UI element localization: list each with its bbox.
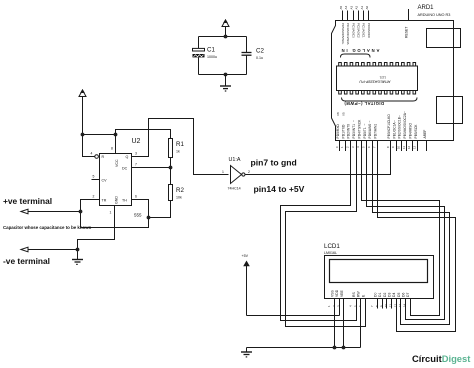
op-amp U2 555 timer body: [91, 138, 143, 218]
node +ve terminal junction: [79, 210, 83, 214]
svg-text:PC2/ADC2: PC2/ADC2: [357, 23, 361, 38]
pin RESET stub: [404, 9, 408, 38]
wire DC pin 7 to R1/R2 junction: [132, 167, 171, 169]
svg-text:AREF: AREF: [423, 130, 427, 139]
wire -ve terminal arrow: [21, 247, 78, 252]
svg-text:D3: D3: [388, 293, 392, 297]
LCD1 LM016L display: [324, 243, 434, 299]
svg-text:8: 8: [386, 146, 390, 148]
wire GND pin 1 to ground: [78, 206, 115, 260]
svg-text:7: 7: [135, 163, 137, 167]
svg-text:D2: D2: [383, 293, 387, 297]
svg-text:4: 4: [349, 305, 353, 307]
wire VCC pin up and over to R1: [116, 130, 171, 154]
wire TR pin 2: [81, 200, 100, 228]
svg-text:PB4/MISO: PB4/MISO: [408, 122, 412, 138]
svg-text:VSS: VSS: [331, 289, 335, 297]
svg-text:74HC14: 74HC14: [228, 187, 241, 191]
wire arduino pin3 to LCD E: [286, 141, 366, 327]
svg-text:PC4/ADC4/SDA: PC4/ADC4/SDA: [346, 23, 350, 45]
svg-text:2: 2: [248, 170, 250, 174]
wire to reset pin 4: [83, 135, 95, 157]
node VSS/ground junction: [333, 346, 337, 350]
svg-text:0.1u: 0.1u: [256, 56, 263, 60]
wire arduino pin2 to LCD RS: [281, 141, 357, 321]
svg-text:ARDUINO UNO R3: ARDUINO UNO R3: [418, 13, 451, 17]
svg-text:D5: D5: [397, 293, 401, 297]
svg-text:2: 2: [346, 146, 350, 148]
svg-text:~: ~: [398, 115, 402, 117]
ground (LCD): [241, 348, 252, 357]
svg-text:pin14 to +5V: pin14 to +5V: [254, 184, 305, 194]
resistor R1: [169, 139, 185, 168]
ground (555 / -ve terminal): [72, 260, 83, 265]
svg-text:X5: X5: [342, 112, 346, 116]
node TH junction: [147, 216, 151, 220]
svg-text:8: 8: [375, 305, 379, 307]
capacitor C2: [242, 37, 265, 75]
svg-text:A2: A2: [355, 5, 359, 9]
node junction top rail: [224, 35, 228, 39]
wire bottom rail C1-C2: [199, 74, 247, 76]
arduino analog pins A5-A0: [339, 5, 371, 44]
svg-text:GND: GND: [115, 196, 119, 204]
node junction VCC branch: [81, 133, 85, 137]
wire R2 bottom to TH node: [149, 201, 171, 218]
svg-text:PB3/MOSI/OC2A: PB3/MOSI/OC2A: [403, 112, 407, 138]
svg-text:3: 3: [351, 146, 355, 148]
wire inverter output to arduino pin8: [245, 141, 390, 175]
svg-text:ATMEGA328P-PU: ATMEGA328P-PU: [359, 80, 390, 84]
svg-text:13: 13: [413, 145, 417, 149]
svg-text:R1: R1: [176, 141, 184, 148]
svg-text:3: 3: [135, 152, 137, 156]
LCD pin names: [331, 289, 411, 297]
svg-text:R2: R2: [176, 187, 184, 194]
svg-text:PB5/SCK: PB5/SCK: [414, 124, 418, 139]
wire TH pin 6: [132, 200, 149, 218]
svg-text:PD0/RXD: PD0/RXD: [336, 124, 340, 139]
svg-text:VCC: VCC: [115, 159, 119, 167]
svg-text:D4: D4: [392, 293, 396, 297]
svg-text:~: ~: [392, 120, 396, 122]
node VEE/ground junction: [342, 346, 346, 350]
svg-text:A3: A3: [349, 5, 353, 9]
svg-text:RESET: RESET: [404, 27, 408, 38]
svg-text:12: 12: [393, 303, 397, 307]
svg-text:VEE: VEE: [340, 289, 344, 297]
svg-text:6: 6: [135, 195, 137, 199]
wire LCD RW to ground bus: [360, 299, 362, 348]
svg-text:1121: 1121: [379, 76, 386, 80]
wire LCD VSS to ground bus: [334, 299, 336, 348]
svg-text:Q: Q: [126, 155, 129, 159]
node junction bottom rail: [224, 73, 228, 77]
svg-text:pin7 to gnd: pin7 to gnd: [251, 158, 297, 168]
svg-text:RW: RW: [357, 291, 361, 297]
svg-text:6: 6: [367, 146, 371, 148]
svg-text:A0: A0: [365, 5, 369, 9]
svg-text:CírcuitDigest: CírcuitDigest: [412, 353, 470, 364]
LCD pin stubs: [335, 299, 411, 309]
svg-text:PC3/ADC3: PC3/ADC3: [351, 23, 355, 38]
svg-text:9: 9: [391, 146, 395, 148]
svg-text:DIGITAL (~PWM): DIGITAL (~PWM): [344, 101, 384, 106]
svg-text:DC: DC: [122, 166, 128, 170]
wire TH node down to TR net: [81, 218, 149, 228]
svg-text:10: 10: [397, 145, 401, 149]
svg-text:~: ~: [368, 121, 372, 123]
svg-text:6: 6: [358, 305, 362, 307]
svg-text:PD4/T0/XCK: PD4/T0/XCK: [357, 119, 361, 139]
svg-text:+5V: +5V: [242, 254, 249, 258]
svg-text:LM016L: LM016L: [324, 251, 337, 255]
wire arduino pin4 to LCD D7: [362, 141, 440, 316]
power +5V symbol (555 rail): [79, 90, 86, 135]
svg-text:2: 2: [93, 195, 95, 199]
logo CircuitDigest: [412, 353, 470, 364]
op-amp U1:A inverter 74HC14: [222, 157, 250, 191]
wire arduino pin6 to LCD D5: [373, 141, 450, 325]
pin CV stub: [92, 179, 100, 181]
svg-text:C1: C1: [207, 47, 215, 54]
svg-text:~: ~: [352, 120, 356, 122]
ground (C1/C2 rail): [220, 75, 231, 92]
svg-text:1: 1: [340, 146, 344, 148]
svg-text:10k: 10k: [176, 195, 182, 199]
svg-text:10: 10: [384, 303, 388, 307]
svg-text:PC0/ADC0: PC0/ADC0: [367, 23, 371, 38]
analog group bracket: [341, 54, 371, 58]
svg-text:D1: D1: [378, 293, 382, 297]
svg-text:D6: D6: [401, 293, 405, 297]
svg-text:PB0/ICP1/CLKO: PB0/ICP1/CLKO: [387, 114, 391, 139]
pin stubs digital unconnected: [340, 141, 427, 152]
svg-text:ARD1: ARD1: [418, 5, 435, 11]
power +5V symbol (LCD VDD): [242, 254, 250, 316]
wire arduino pin7 to LCD D4: [378, 141, 456, 332]
wire arduino pin5 to LCD D6: [367, 141, 445, 320]
svg-text:7: 7: [370, 305, 374, 307]
svg-text:PC1/ADC1: PC1/ADC1: [362, 23, 366, 38]
svg-text:A4: A4: [344, 5, 348, 9]
svg-text:PD5/T1: PD5/T1: [363, 127, 367, 138]
svg-text:5: 5: [362, 146, 366, 148]
arduino power jack: [437, 97, 463, 124]
svg-text:+ve terminal: +ve terminal: [3, 196, 52, 206]
node -ve terminal junction: [76, 248, 80, 252]
svg-text:LCD1: LCD1: [324, 243, 340, 250]
svg-text:D7: D7: [406, 293, 410, 297]
svg-text:2: 2: [332, 305, 336, 307]
svg-text:X8: X8: [336, 112, 340, 116]
node R1/R2/DC junction: [169, 166, 173, 170]
svg-text:14: 14: [403, 303, 407, 307]
svg-text:D0: D0: [374, 293, 378, 297]
svg-text:PC5/ADC5/SCL: PC5/ADC5/SCL: [341, 23, 345, 45]
svg-text:TR: TR: [102, 198, 107, 202]
svg-text:TH: TH: [122, 198, 127, 202]
wire Q pin 3 to inverter input: [132, 119, 229, 175]
svg-text:RS: RS: [352, 292, 356, 297]
svg-text:Capacitor whose capacitance to: Capacitor whose capacitance to be known: [3, 225, 92, 230]
svg-text:R: R: [102, 155, 105, 159]
wire top rail C1-C2: [199, 36, 247, 38]
svg-text:U2: U2: [132, 138, 141, 145]
svg-text:12: 12: [407, 145, 411, 149]
svg-text:ANALOG IN: ANALOG IN: [340, 48, 380, 53]
svg-text:C2: C2: [256, 48, 264, 55]
svg-text:8: 8: [111, 147, 113, 151]
svg-text:11: 11: [389, 304, 393, 307]
svg-text:5: 5: [93, 175, 95, 179]
svg-text:11: 11: [402, 146, 406, 149]
svg-text:555: 555: [134, 213, 142, 218]
svg-text:~: ~: [363, 124, 367, 126]
wire LCD VEE to ground bus: [343, 299, 345, 348]
svg-text:-ve terminal: -ve terminal: [3, 256, 50, 266]
arduino USB connector: [427, 29, 461, 48]
svg-text:PD6/AIN0: PD6/AIN0: [368, 124, 372, 139]
svg-text:PD1/TXD: PD1/TXD: [341, 124, 345, 139]
svg-text:A5: A5: [339, 5, 343, 9]
svg-text:VDD: VDD: [335, 289, 339, 297]
pin numbers digital: [335, 145, 417, 149]
arduino digital pin labels: [336, 111, 427, 139]
wire ground bus: [247, 347, 361, 349]
svg-text:4: 4: [91, 152, 93, 156]
svg-text:PD2/INT0: PD2/INT0: [347, 124, 351, 139]
digital group bracket: [342, 98, 418, 102]
svg-text:CV: CV: [102, 178, 108, 182]
svg-text:~: ~: [403, 111, 407, 113]
svg-text:PD3/INT1: PD3/INT1: [352, 124, 356, 139]
svg-text:0: 0: [335, 146, 339, 148]
LCD pin numbers: [327, 303, 407, 307]
svg-text:PB2/SS/OC1B: PB2/SS/OC1B: [398, 116, 402, 138]
svg-text:1: 1: [110, 211, 112, 215]
svg-text:A1: A1: [360, 5, 364, 9]
capacitor C1: [193, 37, 218, 75]
svg-text:1000u: 1000u: [207, 55, 217, 59]
svg-text:PD7/AIN1: PD7/AIN1: [374, 124, 378, 139]
wire VCC branch to pin8 of U2: [83, 134, 116, 136]
wire +ve terminal arrow: [21, 209, 81, 214]
chip ATMEGA328P: [337, 63, 418, 95]
svg-text:13: 13: [398, 303, 402, 307]
resistor R2: [169, 168, 185, 201]
arduino ARD1 board outline: [332, 5, 454, 141]
svg-text:E: E: [361, 294, 365, 297]
svg-text:1: 1: [327, 305, 331, 307]
svg-text:1k: 1k: [176, 149, 180, 153]
wire +5V to LCD VDD: [247, 299, 340, 316]
svg-text:PB1/OC1A: PB1/OC1A: [392, 122, 396, 139]
svg-text:U1:A: U1:A: [229, 157, 241, 163]
power +5V symbol top (C1/C2 rail): [222, 20, 229, 37]
svg-text:1: 1: [222, 170, 224, 174]
